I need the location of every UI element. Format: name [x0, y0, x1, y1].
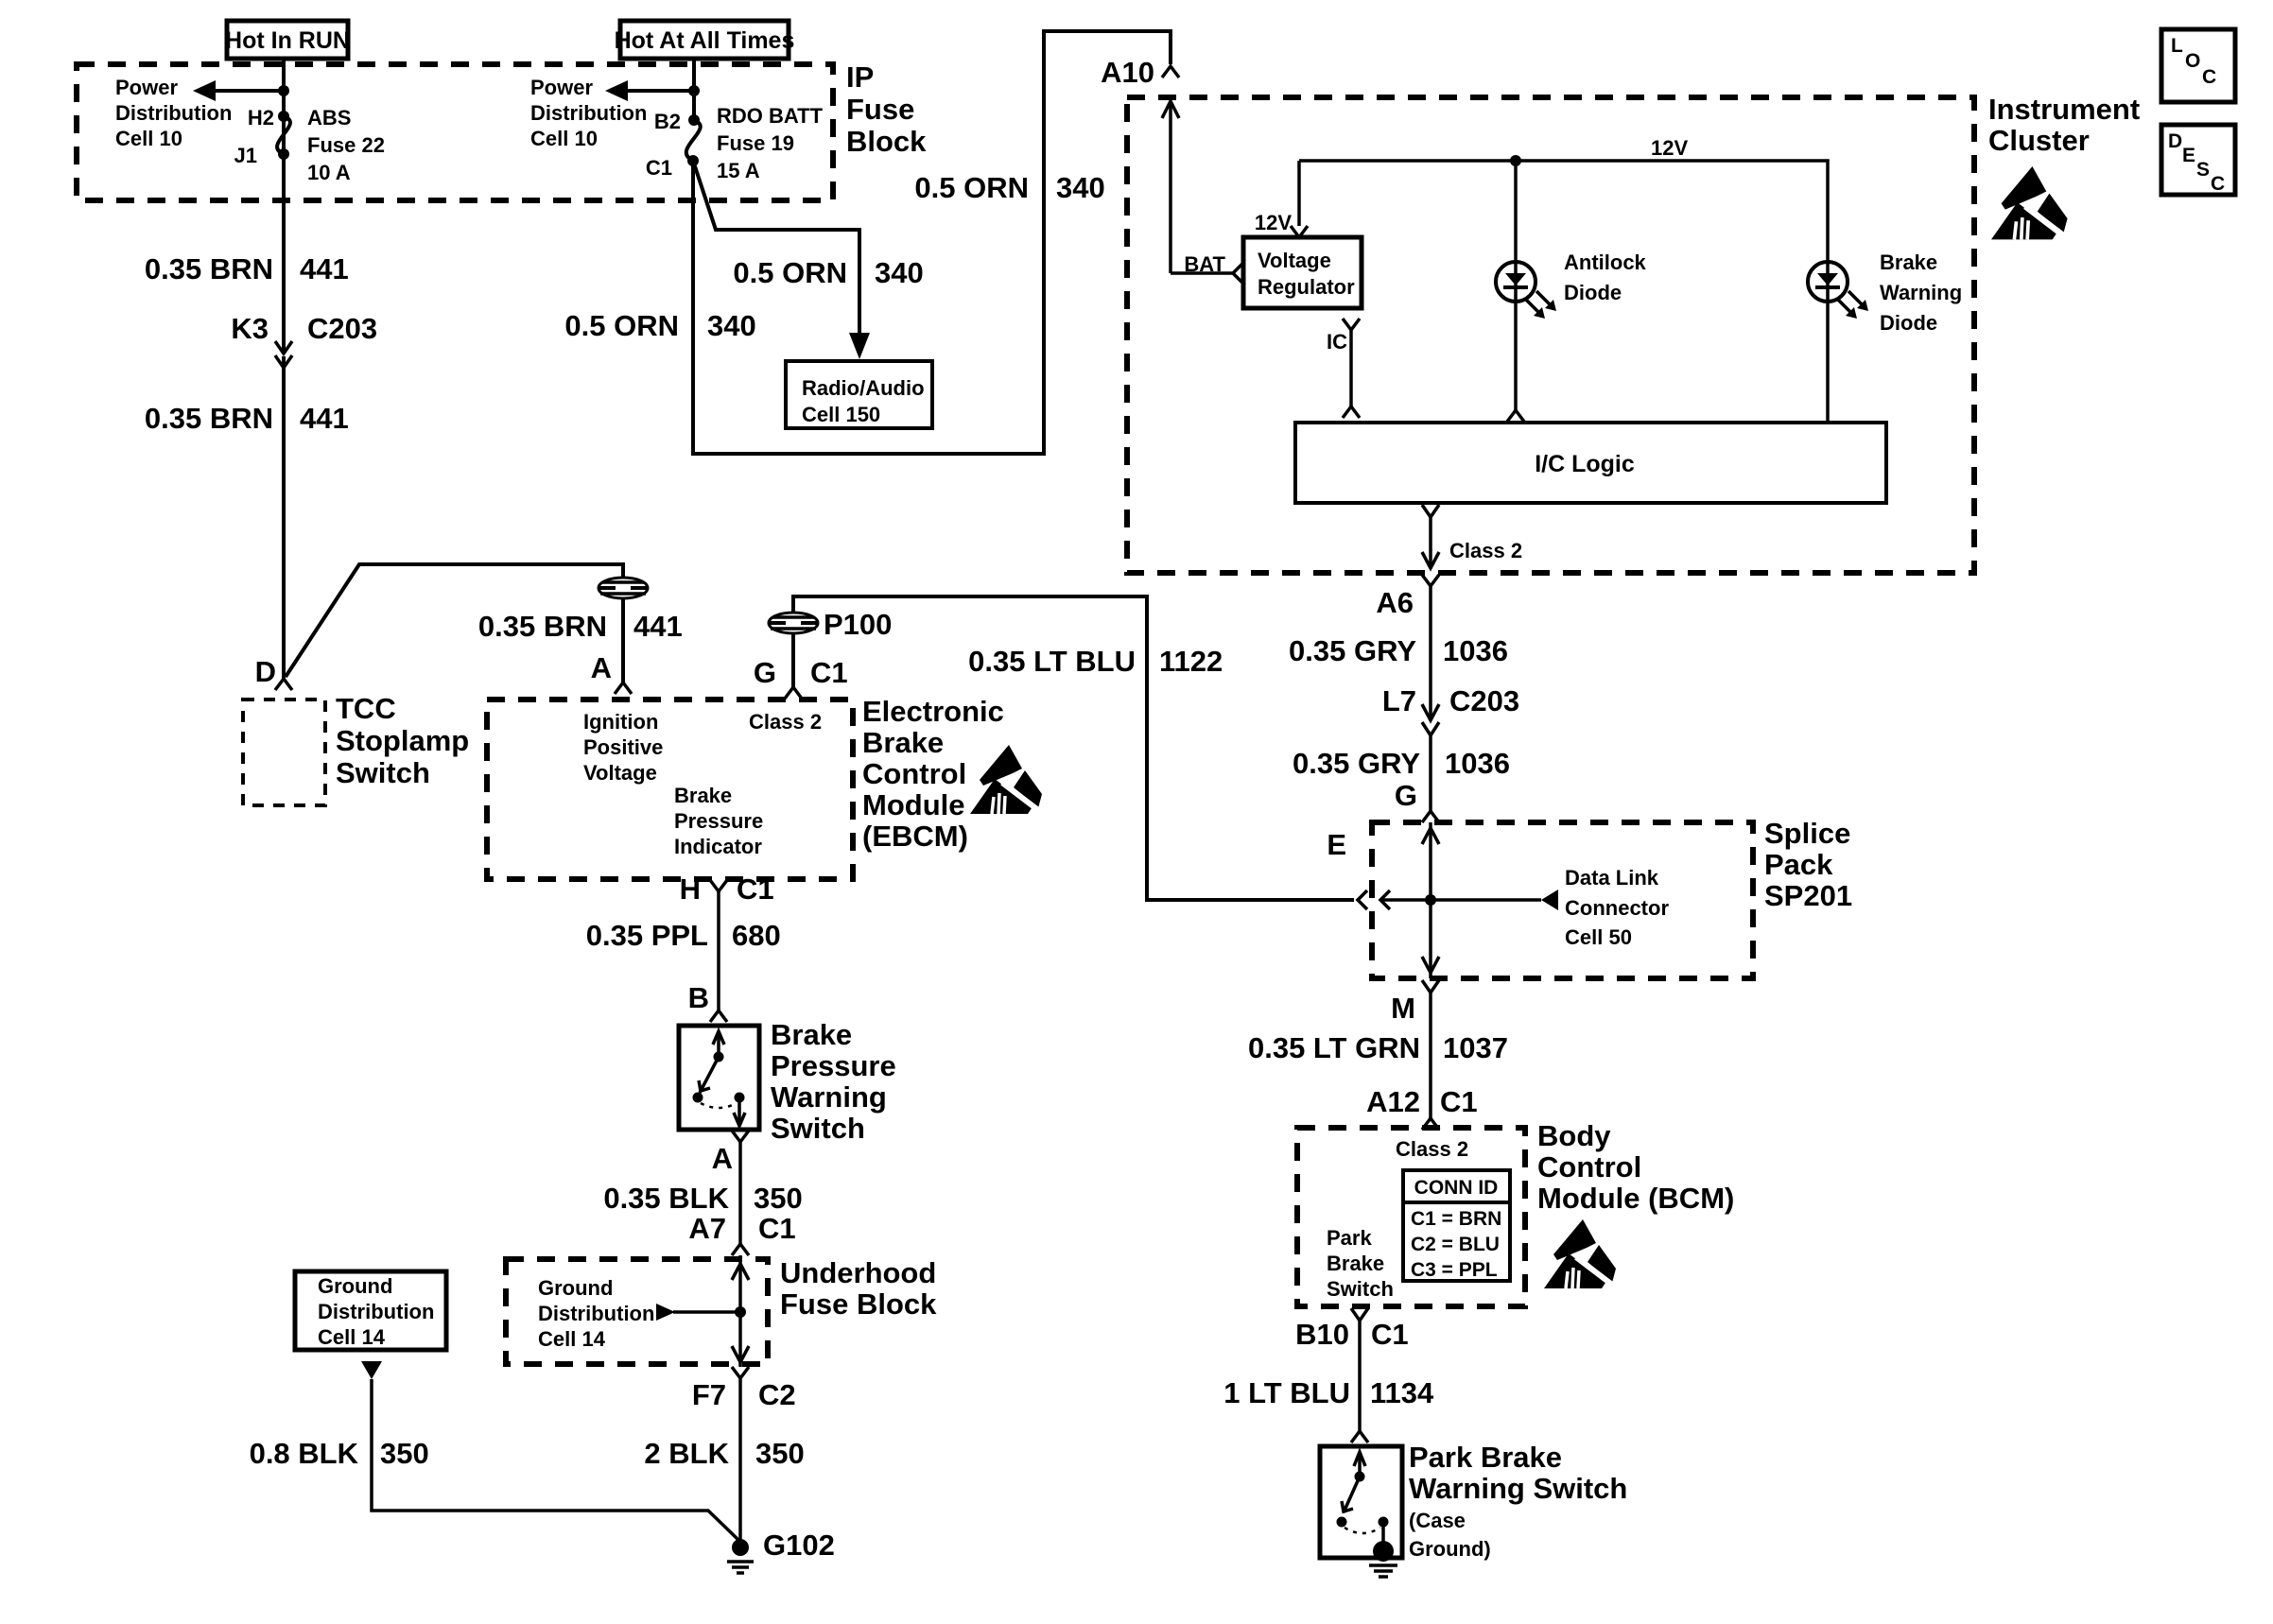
node A below brake pressure switch [712, 1131, 749, 1175]
svg-text:Fuse 19: Fuse 19 [717, 131, 794, 155]
svg-text:D: D [2168, 130, 2182, 152]
label 0.35 BLK 350 [603, 1182, 802, 1215]
svg-text:Cell 150: Cell 150 [802, 403, 880, 426]
svg-text:1036: 1036 [1443, 634, 1508, 667]
svg-text:1134: 1134 [1370, 1376, 1434, 1409]
node 12V at voltage regulator [1255, 211, 1308, 237]
svg-text:(EBCM): (EBCM) [862, 820, 968, 853]
svg-text:0.8 BLK: 0.8 BLK [250, 1437, 359, 1470]
arrow up to A10 inside cluster [1162, 101, 1179, 273]
label 0.5 ORN 340 (main drop) [564, 309, 755, 342]
svg-text:IC: IC [1327, 330, 1347, 354]
label 0.35 GRY 1036 (lower) [1293, 747, 1510, 780]
svg-text:0.35 LT GRN: 0.35 LT GRN [1248, 1031, 1420, 1064]
label 0.35 LT BLU 1122 [968, 645, 1223, 678]
svg-text:Regulator: Regulator [1258, 275, 1355, 299]
svg-text:Hot In RUN: Hot In RUN [225, 27, 350, 54]
svg-text:IP: IP [846, 60, 874, 94]
svg-text:L: L [2171, 35, 2183, 57]
svg-text:350: 350 [755, 1437, 805, 1470]
svg-text:Cell 10: Cell 10 [115, 127, 182, 150]
svg-text:C: C [2202, 66, 2216, 88]
wire Class 2 out of I/C logic [1422, 505, 1439, 568]
svg-text:SP201: SP201 [1764, 879, 1852, 912]
svg-text:Class 2: Class 2 [749, 710, 822, 734]
svg-text:Warning: Warning [1880, 281, 1962, 304]
label Hot At All Times [615, 21, 795, 59]
pin A12 / connector C1 of BCM [1366, 1085, 1478, 1130]
label Park Brake Switch [1327, 1226, 1394, 1301]
svg-text:0.35 PPL: 0.35 PPL [586, 919, 708, 952]
label Splice Pack SP201 [1764, 817, 1852, 912]
svg-text:Cell 14: Cell 14 [318, 1325, 386, 1349]
pin A7 / connector C1 of underhood fuse block [688, 1212, 795, 1255]
svg-text:Power: Power [530, 76, 593, 99]
svg-text:E: E [2182, 145, 2195, 166]
wire 0.35 GRY 1036 (upper) [1429, 586, 1432, 720]
brake pressure switch mechanism [693, 1031, 746, 1126]
svg-text:C1: C1 [758, 1212, 796, 1245]
grommet P100 [769, 608, 892, 641]
park brake warning switch box [1320, 1446, 1402, 1558]
svg-text:Distribution: Distribution [530, 101, 647, 125]
pin B2 [654, 110, 700, 133]
svg-text:Antilock: Antilock [1564, 251, 1647, 274]
svg-text:Data Link: Data Link [1565, 866, 1659, 890]
svg-text:0.35 BRN: 0.35 BRN [478, 610, 607, 643]
svg-text:ABS: ABS [307, 106, 351, 130]
svg-text:Voltage: Voltage [583, 761, 657, 785]
arrow into Radio/Audio [849, 333, 870, 359]
svg-text:0.35 GRY: 0.35 GRY [1289, 634, 1416, 667]
svg-text:Diode: Diode [1564, 281, 1622, 304]
svg-text:441: 441 [633, 610, 683, 643]
arrow to Power Distribution Cell 10 (left) [193, 80, 284, 101]
wire 0.35 PPL 680 [717, 891, 720, 1011]
label 0.5 ORN 340 (cluster feed) [914, 171, 1104, 204]
svg-text:A10: A10 [1101, 56, 1154, 89]
svg-text:10 A: 10 A [307, 161, 351, 184]
svg-text:Positive: Positive [583, 735, 663, 759]
svg-text:Cell 10: Cell 10 [530, 127, 598, 150]
svg-text:B: B [688, 981, 709, 1014]
svg-text:0.35 BLK: 0.35 BLK [603, 1182, 729, 1215]
pin H2 [248, 106, 289, 130]
IC connector between regulator and logic [1327, 319, 1360, 418]
svg-text:J1: J1 [234, 144, 257, 167]
svg-text:A: A [591, 651, 612, 684]
arrow to Power Distribution Cell 10 (right) [605, 80, 694, 101]
label 0.5 ORN 340 (radio drop) [733, 256, 923, 289]
svg-text:TCC: TCC [336, 692, 396, 725]
junction node ground distribution tap [735, 1306, 746, 1318]
svg-text:M: M [1391, 992, 1415, 1025]
splice pack SP201 dashed box [1372, 822, 1753, 978]
svg-text:Distribution: Distribution [318, 1300, 434, 1323]
svg-text:C1: C1 [646, 156, 672, 180]
label Ground Distribution Cell 14 (in box) [538, 1276, 654, 1351]
svg-text:Cell 50: Cell 50 [1565, 925, 1632, 949]
svg-text:0.5 ORN: 0.5 ORN [564, 309, 679, 342]
svg-text:Hot At All Times: Hot At All Times [615, 27, 795, 54]
park brake switch mechanism [1337, 1452, 1389, 1545]
node D terminal of TCC stoplamp switch [255, 655, 292, 690]
IP fuse block dashed box [77, 64, 833, 200]
svg-text:Brake: Brake [1327, 1252, 1384, 1275]
brake warning diode D2 [1808, 262, 1868, 423]
pin B10 / connector C1 below BCM [1295, 1308, 1409, 1351]
svg-text:0.5 ORN: 0.5 ORN [914, 171, 1029, 204]
junction node SP201 [1425, 894, 1436, 906]
svg-text:Pressure: Pressure [674, 809, 763, 833]
wire 0.35 LT GRN 1037 [1429, 993, 1432, 1118]
label Hot In RUN [225, 21, 350, 59]
svg-text:0.35 BRN: 0.35 BRN [145, 252, 273, 285]
svg-text:441: 441 [300, 252, 349, 285]
svg-text:C2: C2 [758, 1378, 796, 1411]
DESC reference box [2161, 125, 2235, 195]
junction node 12V rail [1510, 155, 1521, 166]
label Data Link Connector Cell 50 [1565, 866, 1669, 949]
svg-text:Fuse 22: Fuse 22 [307, 133, 385, 157]
label RDO BATT Fuse 19 15 A [717, 104, 824, 182]
svg-text:Warning: Warning [771, 1080, 887, 1114]
svg-text:C2 = BLU: C2 = BLU [1411, 1234, 1500, 1255]
svg-text:Switch: Switch [1327, 1277, 1394, 1301]
svg-text:2 BLK: 2 BLK [644, 1437, 729, 1470]
svg-text:C1: C1 [1371, 1318, 1409, 1351]
label Brake Warning Diode [1880, 251, 1962, 335]
svg-text:Park Brake: Park Brake [1409, 1441, 1562, 1474]
label Body Control Module (BCM) [1537, 1119, 1734, 1215]
EBCM dashed box [487, 700, 853, 879]
svg-text:Power: Power [115, 76, 178, 99]
node BAT [1184, 252, 1242, 283]
wire EBCM G up through P100 to splice E line [791, 633, 795, 687]
svg-text:350: 350 [754, 1182, 803, 1215]
svg-text:H2: H2 [248, 106, 274, 130]
wire through underhood fuse block [738, 1255, 742, 1367]
label 0.35 PPL 680 [586, 919, 781, 952]
svg-text:Stoplamp: Stoplamp [336, 724, 469, 757]
svg-text:Radio/Audio: Radio/Audio [802, 376, 925, 400]
svg-text:Voltage: Voltage [1258, 249, 1331, 272]
svg-text:Body: Body [1537, 1119, 1611, 1152]
svg-text:CONN ID: CONN ID [1414, 1177, 1499, 1199]
junction node at fuse 22 feed [278, 85, 289, 96]
antilock diode D1 [1496, 262, 1556, 319]
wire through splice pack [1429, 822, 1432, 978]
svg-text:Ground): Ground) [1409, 1537, 1491, 1561]
svg-text:Class 2: Class 2 [1396, 1137, 1468, 1161]
svg-text:Cell 14: Cell 14 [538, 1327, 606, 1351]
svg-text:340: 340 [1056, 171, 1105, 204]
svg-text:D: D [255, 655, 276, 688]
svg-text:441: 441 [300, 402, 349, 435]
svg-text:(Case: (Case [1409, 1509, 1466, 1532]
label Park Brake Warning Switch (Case Ground) [1409, 1441, 1627, 1561]
svg-text:G: G [1395, 779, 1417, 812]
svg-text:Connector: Connector [1565, 896, 1669, 920]
svg-text:Ground: Ground [538, 1276, 613, 1300]
svg-text:Class 2: Class 2 [1449, 539, 1522, 562]
svg-text:Block: Block [846, 125, 927, 158]
label 0.8 BLK 350 [250, 1437, 429, 1470]
arrow from Ground Distribution feed [656, 1304, 740, 1321]
svg-text:1122: 1122 [1159, 645, 1223, 678]
svg-text:C: C [2211, 173, 2225, 195]
radio feed branch wire 0.5 ORN 340 [693, 161, 859, 333]
svg-text:C1 = BRN: C1 = BRN [1411, 1208, 1501, 1230]
svg-text:Distribution: Distribution [115, 101, 232, 125]
wire 12V rail [1299, 161, 1828, 262]
arrow down inside splice pack [1422, 957, 1439, 973]
node into I/C logic from antilock diode [1507, 410, 1524, 422]
label Antilock Diode [1564, 251, 1647, 304]
LOC reference box [2161, 29, 2235, 102]
svg-text:1036: 1036 [1445, 747, 1510, 780]
ESD symbol instrument cluster [1991, 166, 2068, 239]
wire splice to data link connector [1380, 890, 1558, 910]
Ground Distribution Cell 14 box [295, 1271, 446, 1350]
svg-text:Cluster: Cluster [1988, 124, 2090, 157]
label Power Distribution Cell 10 (right) [530, 76, 647, 150]
svg-text:G: G [754, 656, 776, 689]
node B of brake pressure warning switch [688, 981, 727, 1022]
svg-text:Control: Control [1537, 1150, 1641, 1183]
svg-text:A6: A6 [1376, 586, 1414, 619]
svg-text:A12: A12 [1366, 1085, 1420, 1118]
svg-text:Brake: Brake [1880, 251, 1937, 274]
wire from Hot At All Times down [692, 59, 696, 120]
instrument cluster dashed box [1127, 97, 1974, 573]
label 0.35 BRN 441 (upper) [145, 252, 349, 285]
arrow out of ground distribution box [361, 1361, 382, 1379]
svg-text:BAT: BAT [1184, 252, 1225, 276]
svg-text:Fuse Block: Fuse Block [780, 1287, 937, 1321]
svg-text:K3: K3 [231, 312, 269, 345]
pin J1 [234, 144, 289, 167]
svg-text:G102: G102 [763, 1529, 835, 1562]
svg-text:Control: Control [862, 757, 966, 790]
svg-text:Indicator: Indicator [674, 835, 762, 858]
svg-text:C1: C1 [737, 872, 774, 906]
pin K3 / connector C203 [231, 312, 377, 368]
label Electronic Brake Control Module (EBCM) [862, 695, 1004, 853]
svg-text:A: A [712, 1142, 733, 1175]
ground G102 [727, 1529, 835, 1573]
CONN ID table [1403, 1170, 1510, 1281]
wire grommet to EBCM A [621, 598, 625, 682]
svg-text:Module (BCM): Module (BCM) [1537, 1182, 1734, 1215]
svg-text:Switch: Switch [336, 756, 430, 789]
label 0.35 BRN 441 (lower) [145, 402, 349, 435]
svg-text:O: O [2185, 50, 2200, 72]
svg-text:680: 680 [732, 919, 781, 952]
wire 1 LT BLU 1134 [1358, 1321, 1362, 1431]
svg-text:Switch: Switch [771, 1112, 865, 1145]
svg-text:12V: 12V [1651, 136, 1688, 160]
svg-text:Electronic: Electronic [862, 695, 1004, 728]
svg-text:Ignition: Ignition [583, 710, 658, 734]
arrow up inside splice pack [1422, 828, 1439, 844]
wire 0.5 ORN 340 from C1 to instrument cluster A10 [693, 31, 1171, 454]
BCM dashed box [1297, 1128, 1525, 1306]
svg-text:0.35 GRY: 0.35 GRY [1293, 747, 1420, 780]
wire 0.8 BLK 350 [372, 1379, 740, 1542]
fuse F19 (RDO BATT Fuse 19 15A) [686, 120, 701, 161]
node A10 of instrument cluster [1101, 56, 1179, 89]
svg-text:Pack: Pack [1764, 848, 1833, 881]
label Brake Pressure Indicator [674, 784, 763, 858]
svg-text:12V: 12V [1255, 211, 1292, 234]
svg-text:Fuse: Fuse [846, 93, 914, 126]
ESD symbol BCM [1544, 1219, 1616, 1288]
svg-text:C203: C203 [307, 312, 377, 345]
wire from Hot In RUN down to TCC switch D [282, 59, 286, 354]
svg-text:C203: C203 [1449, 684, 1519, 717]
fuse F22 (ABS Fuse 22 10A) [277, 116, 290, 154]
pin F7 / connector C2 [692, 1367, 796, 1411]
svg-text:L7: L7 [1382, 684, 1416, 717]
node H / connector C1 below EBCM [680, 872, 774, 906]
svg-text:Splice: Splice [1764, 817, 1850, 850]
svg-text:B10: B10 [1295, 1318, 1349, 1351]
svg-text:S: S [2196, 159, 2210, 181]
svg-text:E: E [1327, 828, 1346, 861]
svg-text:Pressure: Pressure [771, 1049, 896, 1082]
svg-text:RDO BATT: RDO BATT [717, 104, 824, 128]
svg-text:C1: C1 [1440, 1085, 1478, 1118]
svg-text:C3 = PPL: C3 = PPL [1411, 1259, 1498, 1281]
TCC stoplamp switch dashed box [243, 700, 325, 805]
label Underhood Fuse Block [780, 1256, 937, 1321]
I/C Logic box [1295, 423, 1886, 503]
svg-text:C1: C1 [810, 656, 848, 689]
svg-text:1 LT BLU: 1 LT BLU [1223, 1376, 1350, 1409]
svg-text:Diode: Diode [1880, 311, 1937, 335]
label 0.35 GRY 1036 (upper) [1289, 634, 1508, 667]
svg-text:F7: F7 [692, 1378, 726, 1411]
svg-text:Brake: Brake [674, 784, 732, 807]
svg-text:B2: B2 [654, 110, 681, 133]
svg-text:Underhood: Underhood [780, 1256, 936, 1289]
svg-text:0.5 ORN: 0.5 ORN [733, 256, 847, 289]
svg-text:Warning Switch: Warning Switch [1409, 1472, 1627, 1505]
node M below splice pack [1391, 980, 1439, 1025]
svg-text:1037: 1037 [1443, 1031, 1508, 1064]
brake pressure warning switch box [679, 1026, 759, 1130]
junction node at fuse 19 feed [688, 85, 700, 96]
label 2 BLK 350 [644, 1437, 804, 1470]
svg-text:Module: Module [862, 788, 965, 821]
wire antilock diode branch [1514, 161, 1518, 410]
svg-text:340: 340 [875, 256, 924, 289]
label 0.35 BRN 441 (EBCM feed) [478, 610, 683, 643]
voltage regulator box U1 [1243, 237, 1362, 308]
node G of splice pack [1395, 779, 1439, 822]
svg-text:P100: P100 [824, 608, 892, 641]
arrow down inside underhood box [732, 1346, 749, 1362]
svg-text:Park: Park [1327, 1226, 1372, 1250]
svg-text:0.35 BRN: 0.35 BRN [145, 402, 273, 435]
svg-text:Brake: Brake [771, 1018, 852, 1051]
label ABS Fuse 22 10 A [307, 106, 385, 184]
case ground of park brake switch [1369, 1541, 1397, 1577]
svg-text:Distribution: Distribution [538, 1302, 654, 1325]
wire to BAT of voltage regulator [1171, 271, 1233, 275]
svg-text:H: H [680, 872, 701, 906]
label TCC Stoplamp Switch [336, 692, 469, 789]
label Instrument Cluster [1988, 93, 2140, 157]
pin L7 / connector C203 [1382, 684, 1519, 735]
wire 0.35 GRY 1036 (lower) [1429, 735, 1432, 811]
wire 0.35 BLK 350 [738, 1142, 742, 1244]
svg-text:340: 340 [707, 309, 756, 342]
svg-text:Ground: Ground [318, 1274, 392, 1298]
arrow up inside underhood box [732, 1264, 749, 1280]
wire splice branch from D up to EBCM A [286, 564, 623, 677]
grommet on BRN 441 wire [599, 578, 648, 598]
label 1 LT BLU 1134 [1223, 1376, 1434, 1409]
label Power Distribution Cell 10 (left) [115, 76, 232, 150]
node E entering splice pack [1327, 828, 1390, 909]
ESD symbol EBCM [970, 745, 1042, 814]
node A6 [1376, 575, 1439, 619]
label 0.35 LT GRN 1037 [1248, 1031, 1508, 1064]
svg-text:Brake: Brake [862, 726, 944, 759]
wire 2 BLK 350 to G102 [738, 1378, 742, 1541]
svg-text:A7: A7 [688, 1212, 726, 1245]
pin C1 [646, 155, 699, 180]
node A terminal of EBCM [591, 651, 632, 694]
label Ignition Positive Voltage [583, 710, 663, 785]
Radio/Audio Cell 150 box [786, 361, 932, 428]
node into park brake warning switch [1351, 1431, 1368, 1443]
label IP Fuse Block [846, 60, 927, 158]
svg-text:0.35 LT BLU: 0.35 LT BLU [968, 645, 1136, 678]
svg-text:350: 350 [380, 1437, 429, 1470]
label Brake Pressure Warning Switch [771, 1018, 896, 1145]
underhood fuse block dashed box [506, 1259, 768, 1364]
svg-text:15 A: 15 A [717, 159, 760, 182]
node G / connector C1 of EBCM [754, 656, 848, 699]
svg-text:I/C Logic: I/C Logic [1535, 451, 1635, 477]
svg-text:Instrument: Instrument [1988, 93, 2140, 126]
